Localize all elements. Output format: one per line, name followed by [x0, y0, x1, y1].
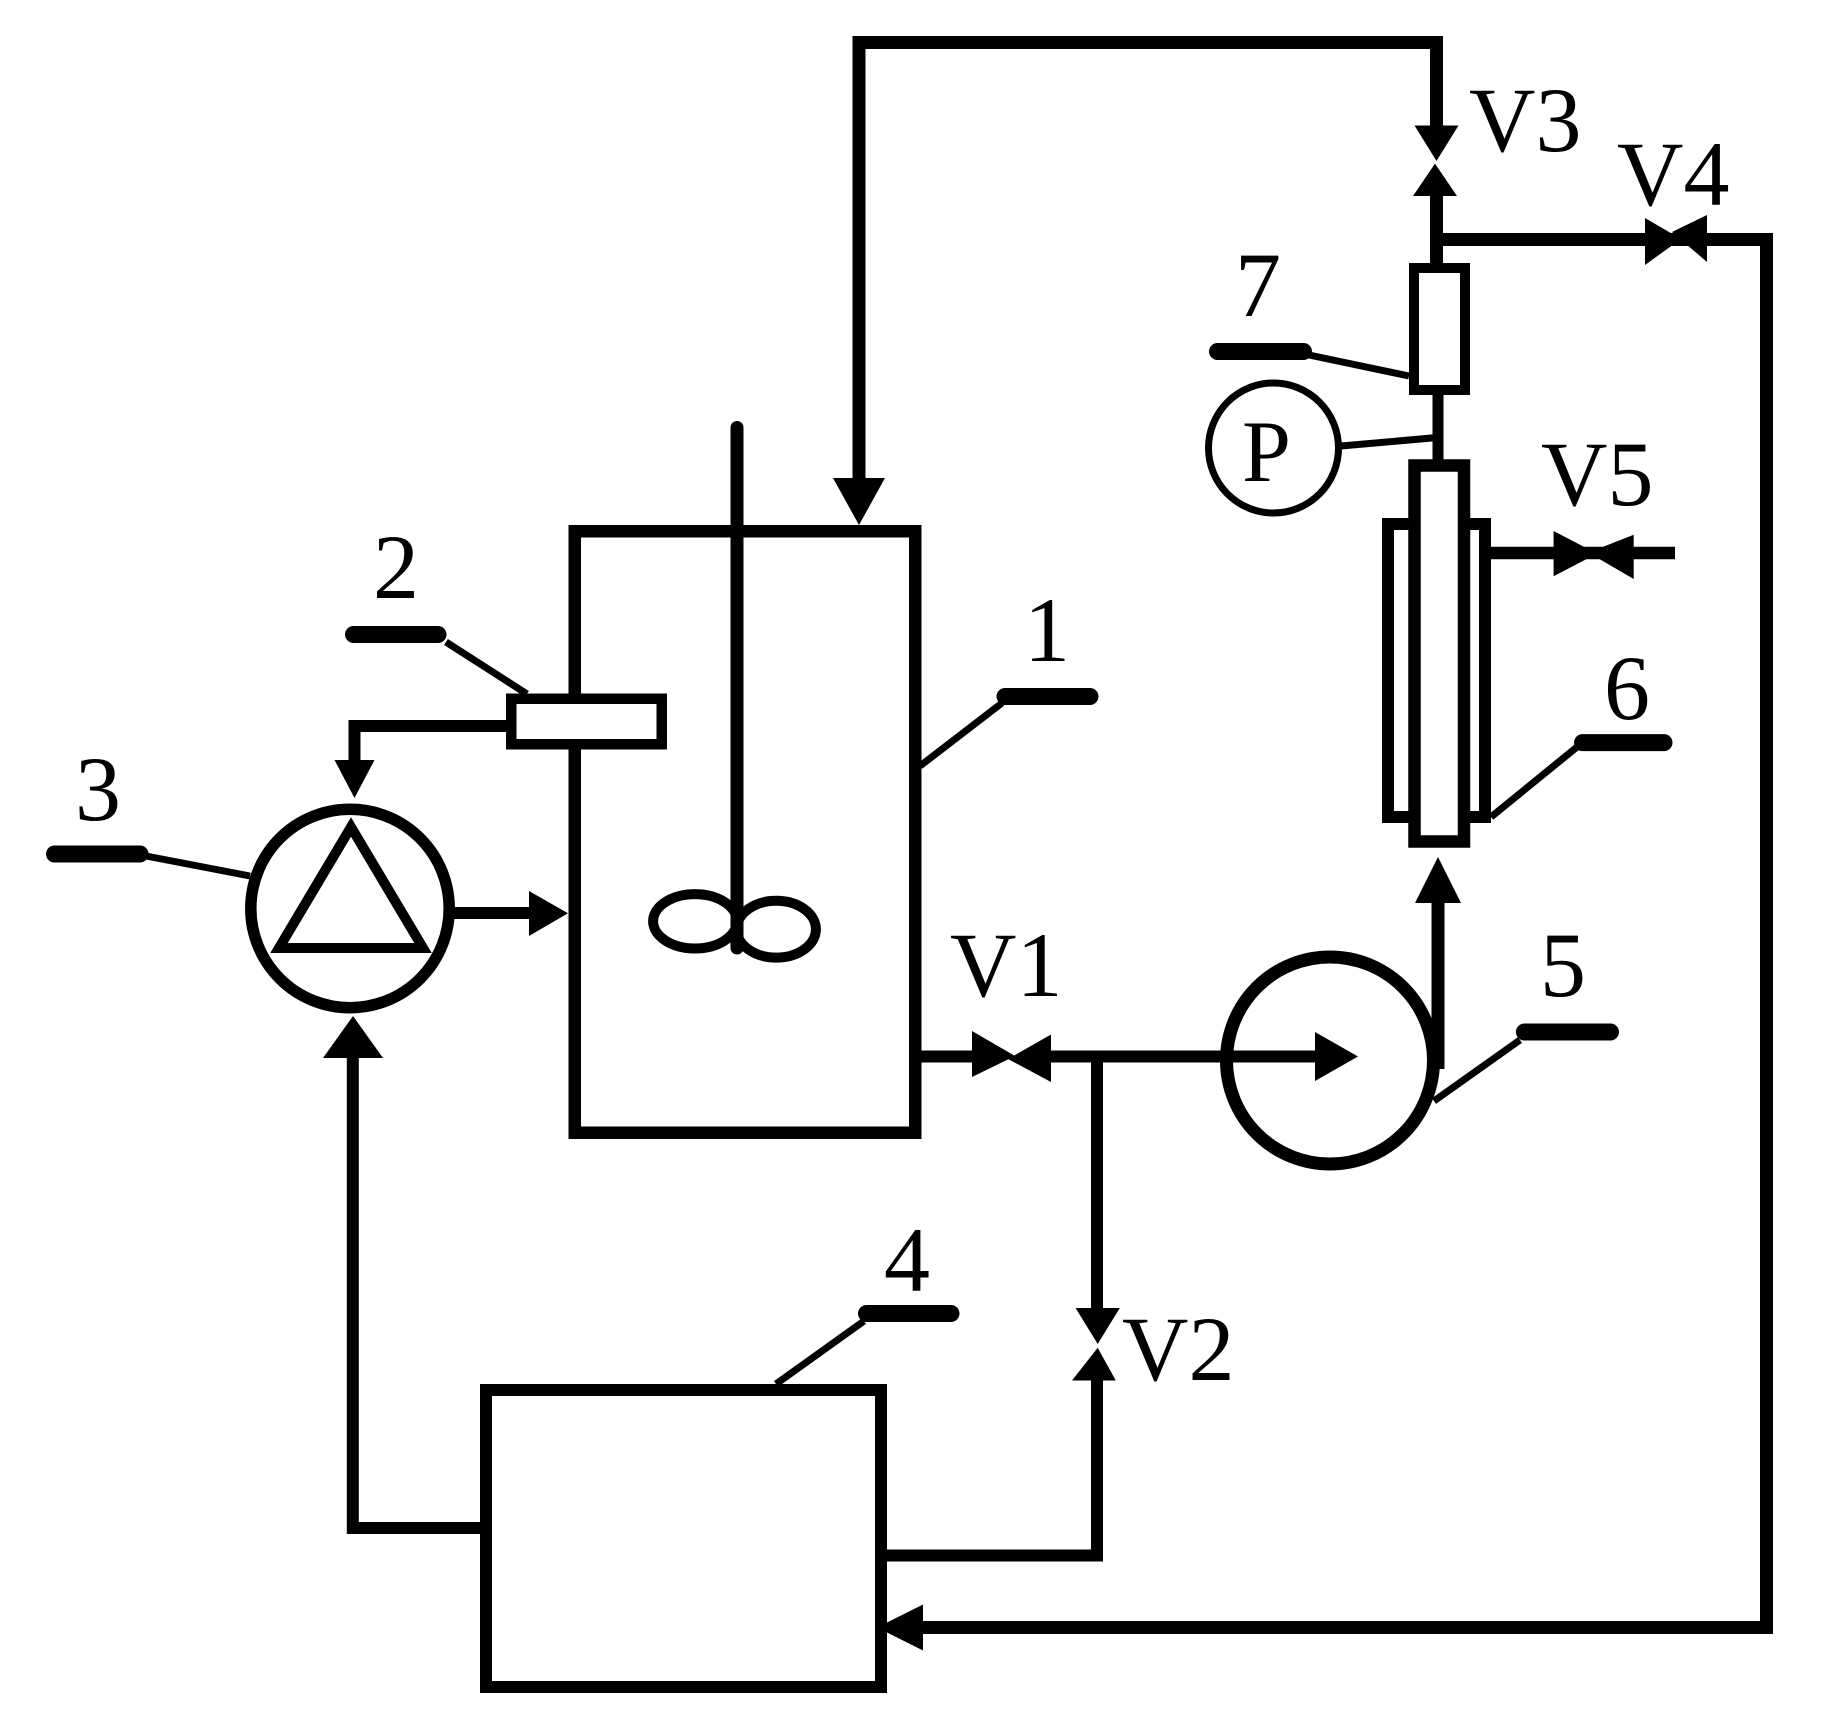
stirrer shaft [731, 428, 744, 949]
wire branch to V4 [1437, 233, 1768, 246]
label 4 underline [867, 1305, 952, 1322]
valve V4 [1645, 218, 1681, 265]
pump 3 triangle [279, 827, 423, 948]
column 6 jacket [1388, 524, 1485, 817]
svg-text:2: 2 [373, 516, 419, 618]
arrow into pump 5 [1315, 1032, 1358, 1081]
arrow into column 6 bottom [1415, 857, 1461, 903]
leader 3 [146, 856, 250, 876]
leader 4 [776, 1321, 864, 1384]
svg-text:3: 3 [75, 738, 121, 840]
column 6 body [1415, 466, 1465, 842]
svg-text:V5: V5 [1541, 423, 1653, 525]
svg-text:V1: V1 [950, 914, 1062, 1016]
propeller left blade [653, 894, 737, 948]
heater 2 body [511, 699, 662, 745]
label 7 underline [1218, 343, 1304, 360]
label 1 underline [1005, 688, 1090, 705]
leader P to pipe [1341, 437, 1443, 446]
wire main right vertical to V3 [1430, 36, 1443, 127]
pump 3 body [251, 809, 449, 1007]
label 5 underline [1524, 1024, 1610, 1041]
wire V1 to pump 5 [1051, 1051, 1316, 1063]
wire flowmeter 7 to column 6 [1433, 390, 1444, 465]
leader 1 [920, 703, 1002, 766]
tank 4 body [486, 1390, 881, 1687]
svg-text:P: P [1242, 404, 1291, 501]
wire tank 4 to pump 3 [353, 1058, 480, 1528]
arrow into tank 1 top [833, 478, 885, 525]
wire left vertical feed to tank 1 [853, 36, 866, 478]
valve V5 [1554, 531, 1597, 576]
leader 5 [1434, 1040, 1520, 1101]
svg-text:5: 5 [1540, 914, 1586, 1016]
svg-text:7: 7 [1235, 234, 1281, 336]
leader 6 [1491, 747, 1577, 817]
svg-text:V2: V2 [1122, 1298, 1234, 1400]
wire top horizontal [853, 36, 1444, 49]
propeller right blade [737, 901, 816, 958]
label 2 underline [354, 626, 439, 643]
flowmeter 7 body [1414, 268, 1465, 390]
tank 1 body [575, 531, 916, 1133]
label 3 underline [55, 846, 141, 863]
svg-text:4: 4 [884, 1209, 930, 1311]
valve V1 [972, 1031, 1015, 1077]
wire V2 to tank 4 [882, 1380, 1097, 1556]
valve V2 [1076, 1308, 1120, 1344]
wire heater 2 to pump 3 [355, 726, 507, 760]
arrow into tank 1 left wall [529, 891, 568, 936]
label 6 underline [1583, 734, 1665, 751]
svg-text:6: 6 [1604, 637, 1650, 739]
pressure gauge P [1209, 383, 1339, 513]
pump 5 body [1227, 957, 1434, 1164]
wire pump 3 to tank 1 [452, 907, 530, 919]
leader 2 [446, 642, 527, 694]
wire pump 5 outlet to column 6 [1432, 903, 1445, 1069]
leader 7 [1309, 355, 1409, 376]
arrow into pump 3 top [335, 760, 375, 798]
wire right vertical return [923, 233, 1767, 1628]
valve V3 [1415, 126, 1459, 162]
wire V5 [1491, 547, 1675, 560]
arrow into tank 4 right wall [877, 1605, 923, 1651]
svg-text:V3: V3 [1469, 69, 1581, 171]
wire V3 to junction and flowmeter 7 [1430, 196, 1443, 268]
valve V1 wire from tank 1 [922, 1051, 973, 1063]
svg-text:V4: V4 [1617, 123, 1729, 225]
arrow into pump 3 bottom [323, 1016, 383, 1058]
wire branch down to V2 [1091, 1057, 1103, 1309]
svg-text:1: 1 [1024, 579, 1070, 681]
